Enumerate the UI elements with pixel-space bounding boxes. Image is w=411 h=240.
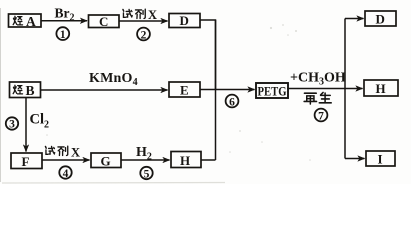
svg-text:H: H [180,153,190,168]
svg-text:6: 6 [229,96,235,108]
label circled 4 [59,166,71,180]
branch vertical wire [344,19,346,159]
svg-text:4: 4 [63,168,69,180]
svg-text:D: D [180,13,189,28]
svg-text:3: 3 [9,119,15,131]
box D [169,13,200,28]
box PETG [256,83,288,99]
box E [169,82,200,97]
svg-text:X: X [71,146,80,160]
svg-text:7: 7 [318,110,324,122]
wire A to C [41,20,87,22]
svg-text:E: E [180,82,189,97]
label 试剂X bottom [45,146,80,160]
label circled 3 [6,117,18,130]
svg-text:KMnO4: KMnO4 [89,71,138,88]
svg-text:F: F [22,154,30,169]
svg-text:X: X [148,8,157,22]
box H right [364,80,398,96]
box H [171,152,201,168]
wire E to PETG [200,89,255,91]
wire B down to F [25,98,27,152]
svg-text:G: G [101,153,111,168]
wire H to junction [201,159,216,161]
svg-text:D: D [376,11,385,26]
wire D to junction [200,20,216,90]
svg-text:PETG: PETG [258,84,287,99]
box G [91,153,121,168]
label 再生 [304,92,331,104]
wire G to H [121,159,170,161]
box 烃B [10,82,41,98]
wire C to D [119,20,168,22]
wire B to E [41,89,168,91]
svg-text:+CH3OH: +CH3OH [290,71,346,88]
wire PETG to H right [287,88,363,90]
label 试剂X [123,8,157,22]
label circled 1 [56,27,69,41]
label circled 2 [137,28,150,42]
wire branch to D right [345,18,364,20]
svg-text:5: 5 [144,168,150,180]
svg-text:B: B [26,83,35,98]
svg-text:A: A [26,14,36,29]
label circled 6 [226,95,239,109]
box F [11,153,42,169]
junction vertical wire [215,20,217,160]
box D right [365,11,396,26]
box C [89,14,120,29]
svg-text:1: 1 [60,29,66,41]
box I right [366,151,395,166]
svg-text:2: 2 [141,29,147,41]
label circled 7 [315,109,328,123]
svg-text:I: I [378,151,383,166]
scan artifacts [0,8,2,182]
label circled 5 [140,167,152,181]
svg-text:C: C [99,14,108,29]
wire branch to I [345,158,365,160]
svg-text:H: H [376,81,386,96]
wire F to G [42,159,90,161]
box 烃A [9,14,42,29]
